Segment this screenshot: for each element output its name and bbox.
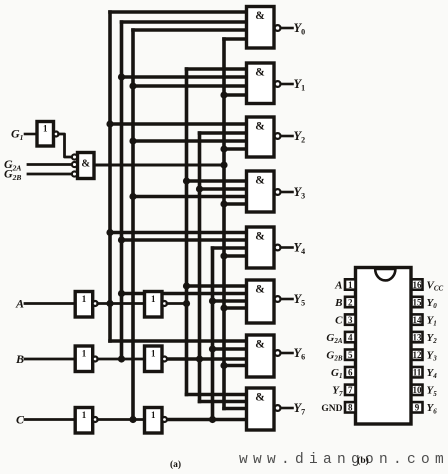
svg-text:9: 9 <box>415 403 420 413</box>
wire Y3 output <box>281 191 293 194</box>
wire Y5 input C <box>213 299 247 303</box>
wire Y2 input A-bar <box>110 122 247 126</box>
inverter UC1 <box>75 408 98 434</box>
junction A to Y5 <box>183 282 190 289</box>
svg-text:GND: GND <box>321 404 342 414</box>
wire Y5 input B-bar <box>122 292 247 296</box>
junction E from AND gate <box>220 161 227 168</box>
NAND gate UY7 <box>247 388 281 430</box>
pin 7 box <box>345 385 356 396</box>
inverter U9 (G1) <box>37 122 59 147</box>
wire Y6 input A-bar <box>110 339 247 343</box>
wire Y5 input E <box>224 306 247 310</box>
pin 2 box <box>345 297 356 308</box>
wire Y6 input C <box>213 347 247 351</box>
wire G2B to AND gate <box>28 173 72 176</box>
wire Y1 input E <box>224 93 247 97</box>
wire bus E enable vertical x=224 <box>222 39 226 409</box>
junction A-bar to Y2 <box>106 120 113 127</box>
wire Y2 output <box>281 135 293 138</box>
wire Y4 input E <box>224 254 247 258</box>
svg-text:1: 1 <box>151 349 156 359</box>
svg-text:C: C <box>335 314 343 326</box>
wire Y1 input C-bar <box>133 84 247 88</box>
wire Y0 input A-bar <box>110 10 247 14</box>
junction B to Y3 <box>196 185 203 192</box>
svg-text:8: 8 <box>348 403 353 413</box>
pin 4 box <box>345 332 356 343</box>
wire Y4 input B-bar <box>122 238 247 242</box>
wire Y2 input C-bar <box>133 139 247 143</box>
wire Y3 input A <box>187 179 247 183</box>
wire bus A-bar vertical x=110 <box>108 12 112 341</box>
junction C-bar at row C <box>129 416 136 423</box>
svg-text:&: & <box>255 175 265 187</box>
wire Y1 input B-bar <box>122 75 247 79</box>
junction B at row B <box>196 355 203 362</box>
wire C to inverter <box>25 418 75 421</box>
wire A to inverter <box>25 302 75 305</box>
wire A: UA2 output to bus A <box>167 302 187 305</box>
wire E: AND gate output to E bus <box>94 164 224 167</box>
svg-text:&: & <box>255 231 265 243</box>
wire A-bar: UA1 to UA2 <box>98 302 145 305</box>
junction E to Y4 <box>220 252 227 259</box>
wire Y0 input B-bar <box>122 20 247 24</box>
svg-text:A: A <box>15 297 24 311</box>
wire Y6 input B from row B <box>166 357 247 361</box>
svg-text:4: 4 <box>348 333 353 343</box>
svg-text:3: 3 <box>348 315 353 325</box>
junction B-bar to Y5 <box>118 290 125 297</box>
svg-text:www.diangon.com: www.diangon.com <box>239 452 448 468</box>
NAND gate UY1 <box>247 63 281 104</box>
svg-text:&: & <box>255 392 265 404</box>
pin 1 box <box>345 279 356 290</box>
svg-text:&: & <box>81 159 90 170</box>
svg-text:12: 12 <box>413 350 423 360</box>
svg-text:13: 13 <box>413 333 423 343</box>
pin 12 box <box>412 350 423 361</box>
pin 14 box <box>412 314 423 325</box>
junction E to Y2 <box>220 145 227 152</box>
AND gate U10 (enable) <box>72 153 94 179</box>
junction A-bar to Y4 <box>106 229 113 236</box>
pin 8 box <box>345 402 356 413</box>
IC package 74LS138 body <box>356 268 412 425</box>
wire Y6 input E <box>224 364 247 368</box>
pin 11 box <box>412 367 423 378</box>
svg-text:&: & <box>255 10 265 22</box>
wire Y2 input E <box>224 147 247 151</box>
inverter UB1 <box>75 346 98 372</box>
wire Y0 output <box>281 27 293 30</box>
svg-text:2: 2 <box>348 297 353 307</box>
svg-text:&: & <box>255 339 265 351</box>
wire B-bar: UB1 to UB2 <box>98 358 145 361</box>
svg-text:16: 16 <box>413 280 423 290</box>
junction B-bar at row B <box>118 355 125 362</box>
svg-text:14: 14 <box>413 315 423 325</box>
NAND gate UY2 <box>247 117 281 157</box>
svg-text:1: 1 <box>151 294 156 304</box>
wire Y3 input C-bar <box>133 195 247 199</box>
wire Y0 input C-bar <box>133 28 247 32</box>
svg-text:1: 1 <box>82 294 87 304</box>
svg-text:&: & <box>255 67 265 79</box>
junction C to Y6 <box>209 345 216 352</box>
junction C to Y5 <box>209 297 216 304</box>
svg-text:1: 1 <box>151 410 156 420</box>
package orientation notch <box>375 269 395 280</box>
junction C-bar to Y3 <box>129 193 136 200</box>
junction C-bar to Y1 <box>129 82 136 89</box>
svg-text:1: 1 <box>43 124 48 134</box>
wire Y4 input A-bar <box>110 231 247 235</box>
NAND gate UY3 <box>247 171 281 212</box>
wire Y4 output <box>281 246 293 249</box>
svg-text:&: & <box>255 121 265 133</box>
svg-text:5: 5 <box>348 350 353 360</box>
wire G2A to AND gate <box>28 163 72 166</box>
svg-text:1: 1 <box>82 410 87 420</box>
wire Y5 input A <box>187 284 247 288</box>
wire Y1 input A <box>187 67 247 71</box>
wire Y3 input B <box>200 187 247 191</box>
inverter UB2 <box>145 346 168 372</box>
junction B-bar to Y1 <box>118 73 125 80</box>
wire U9 output to AND gate <box>59 134 72 157</box>
wire G1 to inverter U9 <box>25 133 37 136</box>
wire bus C-bar vertical x=133 <box>131 30 135 420</box>
NAND gate UY4 <box>247 227 281 268</box>
wire Y2 input B <box>200 131 247 135</box>
wire C-bar: UC1 to UC2 <box>98 418 145 421</box>
wire Y7 input B <box>200 400 247 404</box>
svg-text:10: 10 <box>413 385 423 395</box>
wire bus B vertical x=199.5 <box>198 133 202 402</box>
inverter UA2 <box>145 292 168 318</box>
pin 10 box <box>412 385 423 396</box>
pin 15 box <box>412 297 423 308</box>
pin 9 box <box>412 402 423 413</box>
wire Y3 input E <box>224 202 247 206</box>
svg-text:&: & <box>255 284 265 296</box>
inverter UC2 <box>145 408 168 434</box>
wire Y4 input C <box>213 246 247 250</box>
wire bus B-bar vertical x=121.5 <box>120 22 124 359</box>
svg-text:11: 11 <box>413 368 422 378</box>
svg-text:15: 15 <box>413 297 423 307</box>
wire Y0 input E <box>224 37 247 41</box>
junction C at row C <box>209 416 216 423</box>
svg-text:7: 7 <box>348 385 353 395</box>
wire Y7 output <box>281 407 293 410</box>
wire Y5 output <box>281 298 293 301</box>
junction E to Y6 <box>220 362 227 369</box>
pin 13 box <box>412 332 423 343</box>
wire Y6 output <box>281 352 293 355</box>
NAND gate UY0 <box>247 7 281 49</box>
svg-text:A: A <box>334 279 342 291</box>
NAND gate UY6 <box>247 335 281 377</box>
junction A at row A <box>183 300 190 307</box>
NAND gate UY5 <box>247 280 281 323</box>
junction E to Y5 <box>220 304 227 311</box>
wire Y7 input A <box>187 393 247 397</box>
junction E to Y3 <box>220 200 227 207</box>
wire Y1 output <box>281 83 293 86</box>
wire Y7 input E <box>224 407 247 411</box>
pin 3 box <box>345 314 356 325</box>
svg-text:B: B <box>15 352 24 366</box>
svg-text:B: B <box>334 297 342 309</box>
svg-text:1: 1 <box>82 349 87 359</box>
junction B-bar to Y4 <box>118 236 125 243</box>
wire B to inverter <box>25 358 75 361</box>
junction C-bar to Y2 <box>129 137 136 144</box>
svg-text:(a): (a) <box>170 459 181 470</box>
wire bus C vertical x=212.5 <box>211 248 215 420</box>
junction A to Y3 <box>183 177 190 184</box>
pin 16 box <box>412 279 423 290</box>
pin 5 box <box>345 350 356 361</box>
wire Y7 input C from row C <box>166 418 247 422</box>
inverter UA1 <box>75 292 98 318</box>
junction E to Y1 <box>220 91 227 98</box>
pin 6 box <box>345 367 356 378</box>
wire bus A vertical x=186.5 <box>185 69 189 395</box>
svg-text:1: 1 <box>348 280 353 290</box>
svg-text:(b): (b) <box>357 455 369 466</box>
junction A-bar at row A <box>106 300 113 307</box>
svg-text:6: 6 <box>348 368 353 378</box>
